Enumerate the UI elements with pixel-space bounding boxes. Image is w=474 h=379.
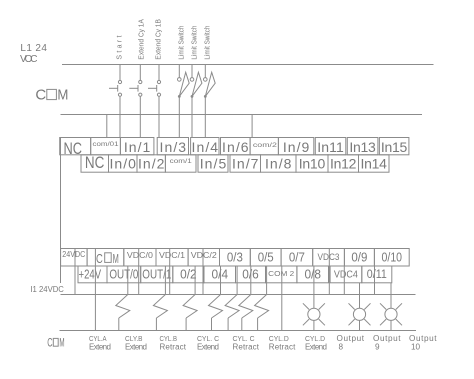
svg-text:NC: NC — [64, 140, 83, 158]
svg-text:In/6: In/6 — [222, 139, 249, 155]
svg-text:C: C — [47, 337, 52, 349]
svg-text:In/5: In/5 — [200, 156, 227, 172]
svg-text:VDC3: VDC3 — [318, 252, 340, 262]
svg-text:Extend: Extend — [89, 342, 111, 351]
svg-text:0/9: 0/9 — [351, 249, 367, 264]
svg-text:0/5: 0/5 — [258, 249, 274, 264]
svg-text:In11: In11 — [317, 139, 344, 155]
svg-text:M: M — [113, 251, 119, 266]
svg-text:In10: In10 — [299, 156, 326, 172]
svg-text:Limit Switch: Limit Switch — [192, 26, 199, 60]
svg-text:Start: Start — [116, 36, 123, 60]
svg-text:Retract: Retract — [233, 342, 260, 351]
svg-text:COM 2: COM 2 — [268, 269, 294, 278]
svg-text:M: M — [57, 87, 68, 104]
svg-text:Extend Cy 1A: Extend Cy 1A — [139, 19, 146, 60]
svg-text:Extend: Extend — [305, 342, 327, 351]
svg-text:VOC: VOC — [20, 54, 38, 65]
svg-text:0/8: 0/8 — [304, 267, 321, 281]
svg-text:0/3: 0/3 — [227, 249, 243, 264]
svg-text:8: 8 — [339, 342, 344, 351]
svg-text:In13: In13 — [349, 139, 376, 155]
svg-text:I1 24VDC: I1 24VDC — [30, 284, 64, 294]
svg-text:In12: In12 — [330, 156, 357, 172]
svg-text:VDC/1: VDC/1 — [159, 250, 185, 260]
svg-text:L1 24: L1 24 — [20, 43, 47, 54]
svg-text:In15: In15 — [381, 139, 408, 155]
svg-text:In/2: In/2 — [138, 156, 165, 172]
svg-text:0/11: 0/11 — [367, 269, 387, 281]
svg-text:In/3: In/3 — [160, 139, 187, 155]
svg-text:In/8: In/8 — [265, 156, 292, 172]
svg-text:C: C — [96, 251, 103, 266]
svg-text:Limit Switch: Limit Switch — [204, 26, 211, 60]
svg-text:OUT/1: OUT/1 — [142, 268, 171, 282]
svg-text:9: 9 — [375, 342, 380, 351]
svg-text:M: M — [59, 337, 64, 349]
svg-text:VDC4: VDC4 — [334, 270, 358, 281]
svg-text:24VDC: 24VDC — [62, 249, 85, 259]
svg-text:0/7: 0/7 — [289, 249, 305, 264]
svg-text:Extend: Extend — [197, 342, 219, 351]
svg-text:0/10: 0/10 — [382, 249, 403, 264]
svg-text:Extend: Extend — [125, 342, 147, 351]
svg-text:0/4: 0/4 — [212, 268, 229, 282]
svg-text:In/7: In/7 — [232, 156, 259, 172]
svg-text:In/1: In/1 — [124, 139, 151, 155]
svg-text:VDC/0: VDC/0 — [127, 250, 153, 260]
svg-text:In/4: In/4 — [192, 139, 219, 155]
svg-text:Retract: Retract — [160, 342, 187, 351]
svg-text:Extend Cy 1B: Extend Cy 1B — [156, 19, 163, 60]
svg-text:10: 10 — [411, 342, 421, 351]
svg-text:com/1: com/1 — [170, 158, 192, 165]
svg-text:In14: In14 — [360, 156, 387, 172]
svg-text:C: C — [35, 87, 46, 104]
svg-text:VDC/2: VDC/2 — [191, 250, 217, 260]
svg-text:+24V: +24V — [79, 268, 102, 282]
svg-text:OUT/0: OUT/0 — [109, 268, 138, 282]
svg-text:com/01: com/01 — [93, 141, 119, 148]
svg-text:In/0: In/0 — [109, 156, 136, 172]
svg-text:Retract: Retract — [269, 342, 296, 351]
svg-text:com/2: com/2 — [253, 142, 278, 149]
svg-text:0/2: 0/2 — [180, 268, 197, 282]
svg-text:Limit Switch: Limit Switch — [179, 26, 186, 60]
svg-text:In/9: In/9 — [283, 139, 310, 155]
svg-text:NC: NC — [85, 154, 105, 172]
